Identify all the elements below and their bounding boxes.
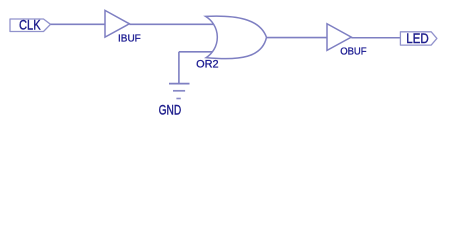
ground bbox=[159, 84, 190, 118]
buffer OBUF bbox=[327, 24, 367, 58]
wire OR2 to OBUF bbox=[267, 37, 328, 39]
svg-text:IBUF: IBUF bbox=[118, 33, 141, 44]
wire down to ground bbox=[178, 52, 180, 84]
wire GND to OR2 input B bbox=[179, 51, 212, 53]
input port CLK bbox=[10, 17, 51, 33]
svg-text:LED: LED bbox=[406, 30, 429, 46]
wire CLK to IBUF bbox=[51, 23, 106, 25]
svg-text:CLK: CLK bbox=[19, 17, 41, 33]
wire OBUF to LED bbox=[351, 37, 400, 39]
wire IBUF to OR2 input A bbox=[129, 23, 214, 25]
svg-text:OR2: OR2 bbox=[196, 59, 219, 71]
svg-text:OBUF: OBUF bbox=[340, 47, 366, 58]
svg-text:GND: GND bbox=[159, 101, 182, 117]
output port LED bbox=[400, 30, 437, 46]
buffer IBUF bbox=[105, 10, 141, 44]
or-gate OR2 bbox=[196, 16, 266, 70]
